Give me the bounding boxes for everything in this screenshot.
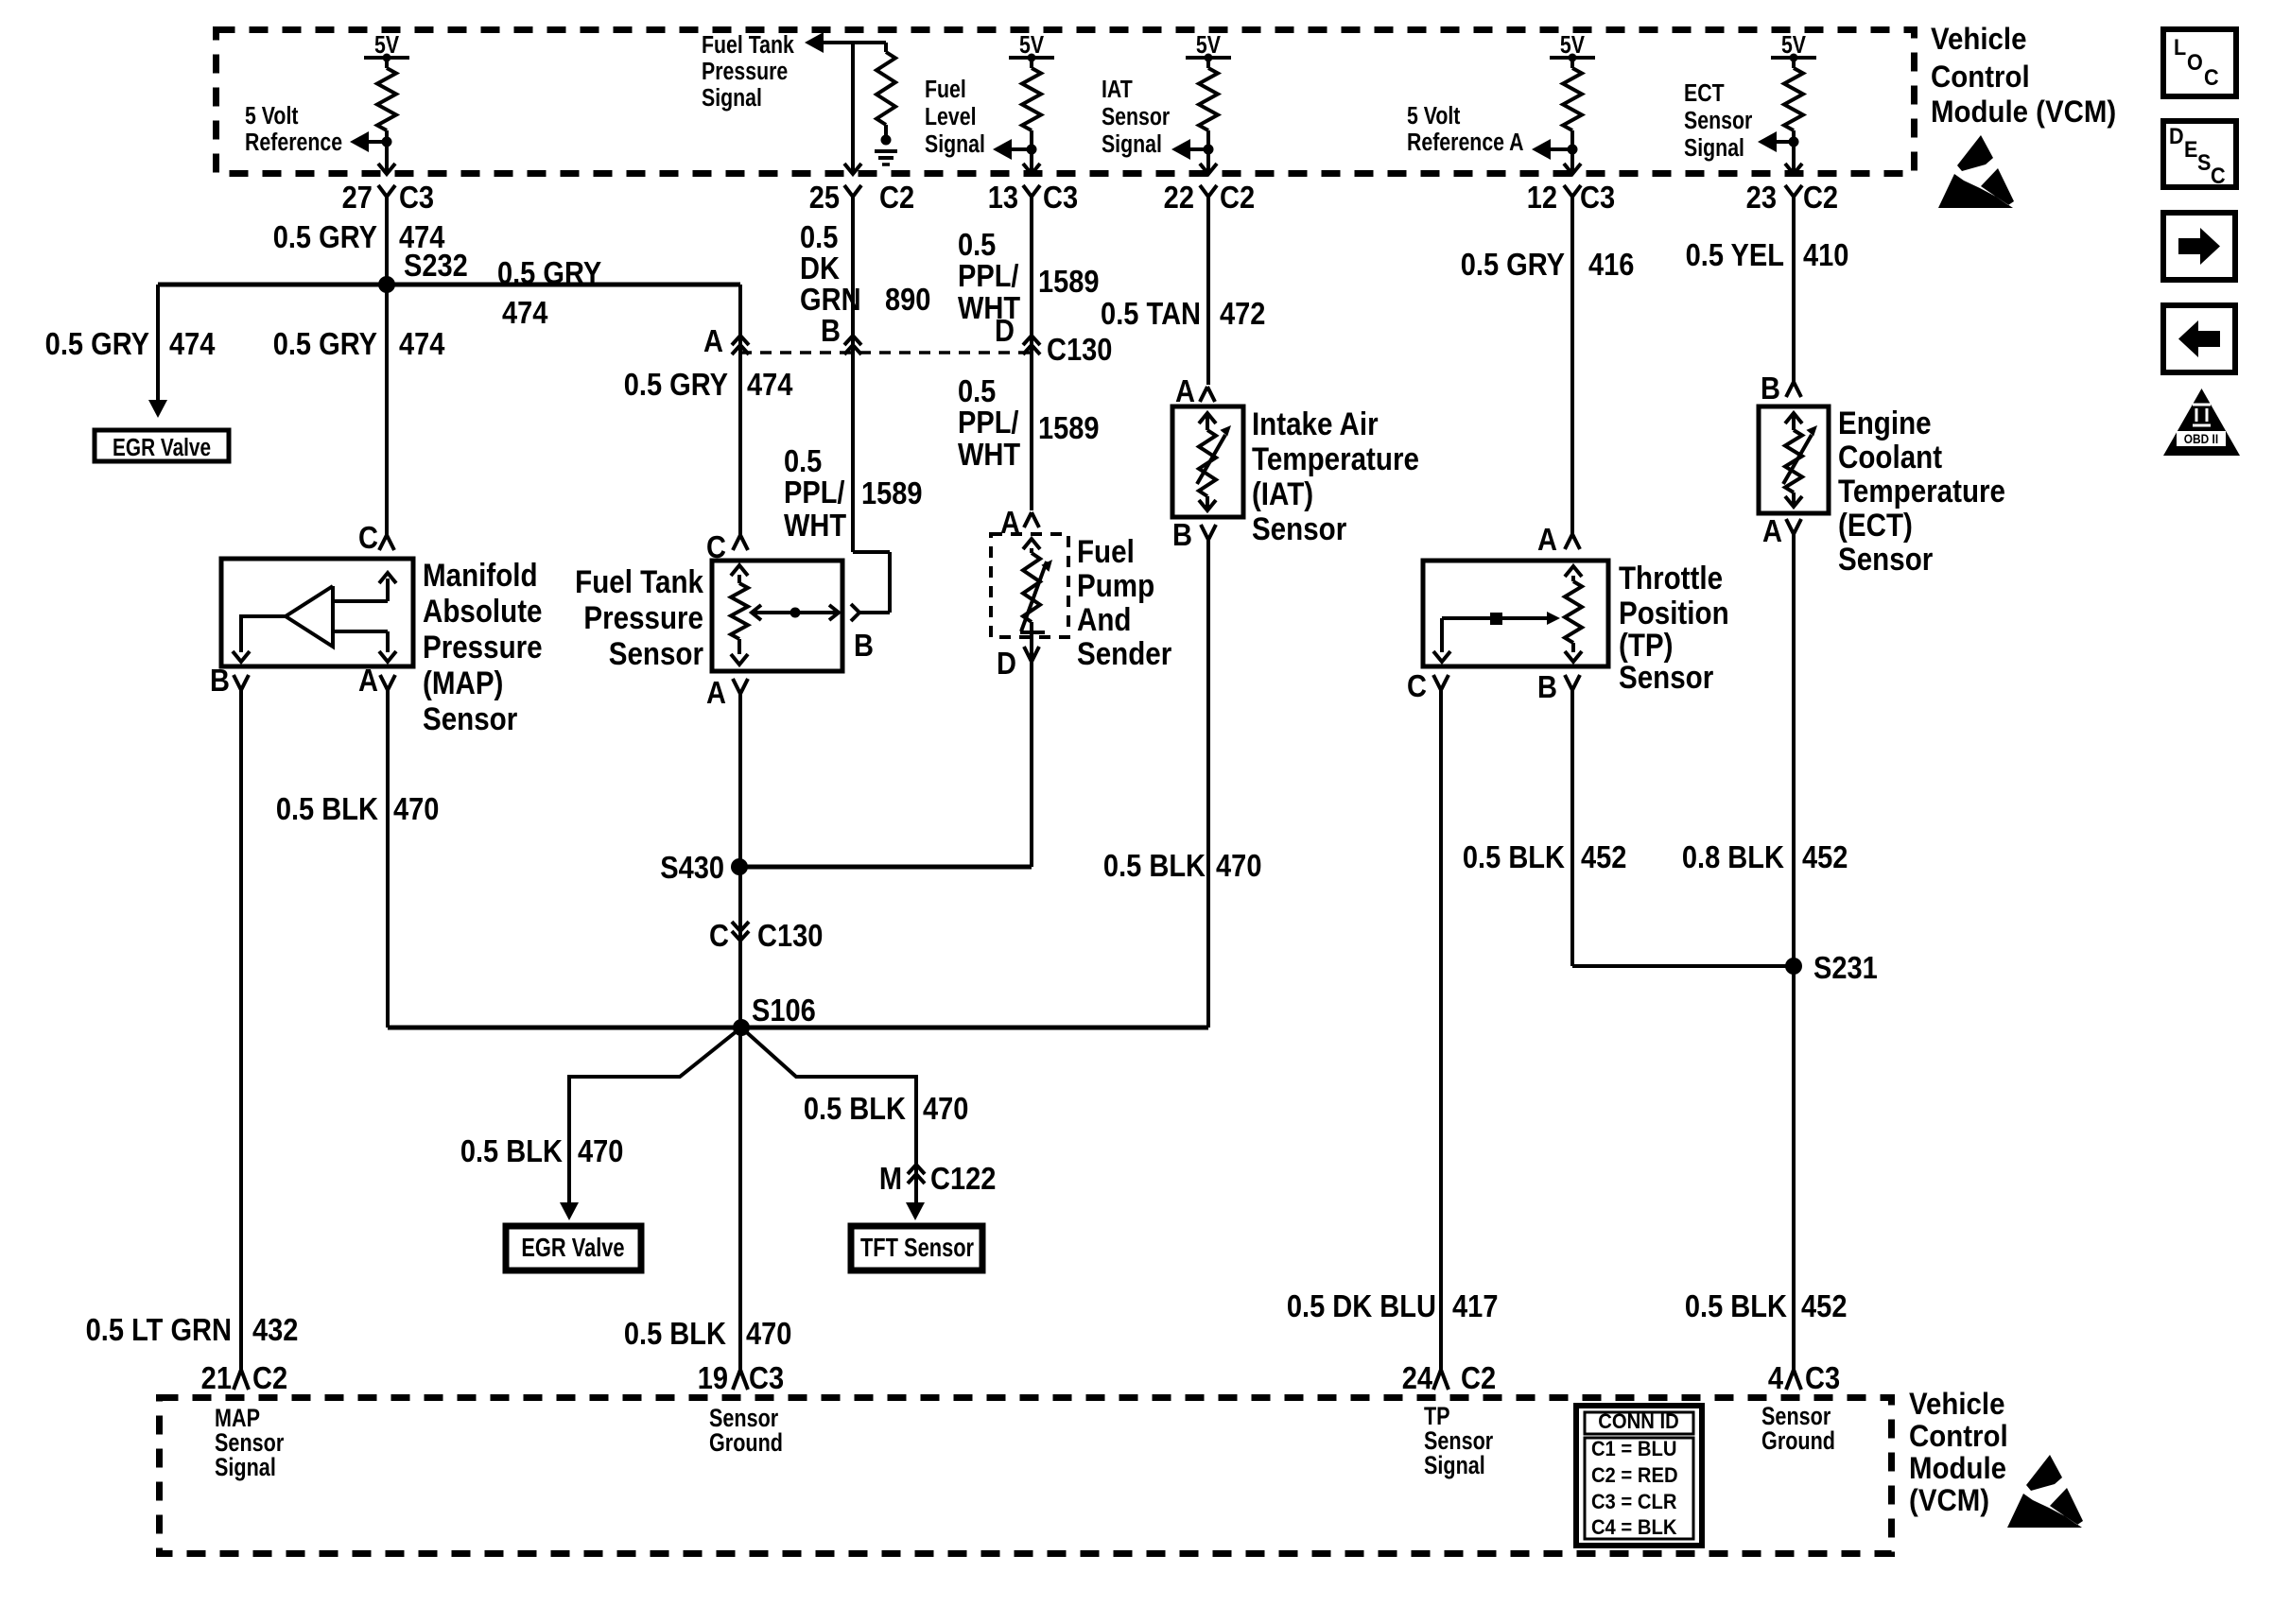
svg-text:452: 452	[1801, 1288, 1847, 1323]
svg-text:C3: C3	[399, 180, 434, 215]
svg-text:C122: C122	[930, 1161, 996, 1196]
svg-text:Fuel: Fuel	[1077, 533, 1135, 569]
svg-text:472: 472	[1220, 296, 1265, 331]
svg-text:0.5 BLK: 0.5 BLK	[624, 1316, 727, 1351]
svg-text:5 Volt: 5 Volt	[245, 102, 299, 130]
svg-text:C1 = BLU: C1 = BLU	[1591, 1438, 1676, 1460]
svg-text:470: 470	[923, 1091, 968, 1126]
svg-text:0.5 BLK: 0.5 BLK	[804, 1091, 907, 1126]
svg-text:0.5 BLK: 0.5 BLK	[1685, 1288, 1788, 1323]
svg-text:474: 474	[502, 295, 548, 330]
svg-text:Pressure: Pressure	[583, 599, 703, 635]
svg-text:Module: Module	[1909, 1451, 2006, 1485]
svg-text:C2 = RED: C2 = RED	[1591, 1464, 1678, 1487]
svg-text:470: 470	[578, 1133, 623, 1168]
svg-text:C4 = BLK: C4 = BLK	[1591, 1516, 1677, 1539]
svg-text:Coolant: Coolant	[1838, 439, 1942, 475]
svg-text:Signal: Signal	[215, 1454, 276, 1482]
svg-text:470: 470	[393, 791, 439, 826]
svg-text:PPL/: PPL/	[784, 475, 845, 510]
svg-text:O: O	[2187, 49, 2203, 75]
svg-text:Sender: Sender	[1077, 635, 1171, 671]
svg-text:Throttle: Throttle	[1619, 560, 1723, 596]
svg-text:1589: 1589	[1038, 410, 1100, 445]
svg-text:5 Volt: 5 Volt	[1407, 102, 1461, 130]
svg-text:(VCM): (VCM)	[1909, 1483, 1989, 1517]
svg-text:A: A	[358, 663, 378, 698]
svg-text:Fuel Tank: Fuel Tank	[575, 563, 703, 599]
svg-text:C: C	[2204, 64, 2219, 90]
svg-text:Fuel Tank: Fuel Tank	[702, 31, 795, 60]
svg-text:470: 470	[1216, 848, 1261, 883]
svg-text:474: 474	[399, 326, 445, 361]
svg-text:Sensor: Sensor	[1619, 659, 1713, 695]
svg-text:C2: C2	[1803, 180, 1838, 215]
svg-text:PPL/: PPL/	[958, 405, 1019, 440]
svg-text:0.5 GRY: 0.5 GRY	[1461, 247, 1566, 282]
svg-text:A: A	[1537, 522, 1557, 557]
svg-text:Sensor: Sensor	[1838, 541, 1933, 577]
svg-text:13: 13	[988, 180, 1018, 215]
svg-text:24: 24	[1402, 1360, 1433, 1395]
svg-text:B: B	[821, 313, 841, 348]
svg-text:C130: C130	[1047, 332, 1112, 367]
svg-text:0.5 BLK: 0.5 BLK	[276, 791, 379, 826]
svg-text:Signal: Signal	[925, 130, 985, 159]
svg-text:Vehicle: Vehicle	[1931, 22, 2026, 56]
svg-text:DK: DK	[800, 251, 840, 285]
svg-text:890: 890	[885, 282, 930, 317]
svg-text:C2: C2	[879, 180, 914, 215]
svg-text:S232: S232	[404, 248, 468, 283]
svg-text:0.5 GRY: 0.5 GRY	[273, 219, 378, 254]
svg-text:OBD II: OBD II	[2184, 431, 2218, 446]
svg-text:D: D	[997, 646, 1016, 681]
svg-text:474: 474	[169, 326, 216, 361]
svg-text:Signal: Signal	[1102, 130, 1162, 159]
svg-text:Sensor: Sensor	[609, 635, 703, 671]
svg-text:Temperature: Temperature	[1252, 441, 1419, 476]
svg-text:WHT: WHT	[784, 508, 846, 543]
svg-text:Vehicle: Vehicle	[1909, 1387, 2004, 1421]
svg-text:1589: 1589	[861, 475, 923, 510]
svg-text:0.5 YEL: 0.5 YEL	[1686, 237, 1784, 272]
svg-text:Sensor: Sensor	[1102, 103, 1170, 131]
svg-text:B: B	[1172, 517, 1192, 552]
svg-text:0.5 GRY: 0.5 GRY	[273, 326, 378, 361]
svg-text:Pressure: Pressure	[702, 58, 788, 86]
svg-text:Absolute: Absolute	[423, 593, 543, 629]
svg-text:B: B	[854, 628, 874, 663]
svg-text:(IAT): (IAT)	[1252, 475, 1313, 511]
svg-text:Signal: Signal	[1424, 1452, 1485, 1480]
svg-text:E: E	[2184, 136, 2197, 162]
svg-text:0.5 TAN: 0.5 TAN	[1101, 296, 1201, 331]
svg-text:0.5 BLK: 0.5 BLK	[1103, 848, 1206, 883]
svg-text:C: C	[706, 529, 726, 564]
svg-text:A: A	[1762, 513, 1782, 548]
svg-text:Sensor: Sensor	[423, 700, 517, 736]
svg-text:0.5 BLK: 0.5 BLK	[1463, 839, 1566, 874]
svg-text:474: 474	[747, 367, 793, 402]
svg-text:A: A	[706, 675, 726, 710]
svg-text:C3 = CLR: C3 = CLR	[1591, 1491, 1676, 1513]
svg-text:IAT: IAT	[1102, 76, 1133, 104]
svg-text:432: 432	[252, 1312, 298, 1347]
svg-text:Pump: Pump	[1077, 567, 1154, 603]
svg-text:Intake Air: Intake Air	[1252, 406, 1379, 441]
svg-text:0.5 DK BLU: 0.5 DK BLU	[1287, 1288, 1436, 1323]
svg-text:S: S	[2197, 149, 2211, 175]
svg-text:Temperature: Temperature	[1838, 473, 2005, 509]
svg-text:27: 27	[342, 180, 373, 215]
svg-text:Control: Control	[1909, 1419, 2008, 1453]
svg-text:Reference: Reference	[245, 129, 342, 157]
svg-text:B: B	[1761, 371, 1780, 406]
svg-text:12: 12	[1527, 180, 1557, 215]
svg-text:ECT: ECT	[1684, 79, 1725, 108]
svg-text:A: A	[703, 323, 723, 358]
svg-text:Position: Position	[1619, 595, 1729, 631]
svg-text:Manifold: Manifold	[423, 557, 538, 593]
svg-text:S231: S231	[1813, 950, 1878, 985]
svg-text:M: M	[879, 1161, 902, 1196]
svg-text:D: D	[2169, 123, 2184, 148]
svg-text:C3: C3	[1580, 180, 1615, 215]
svg-text:Signal: Signal	[1684, 134, 1744, 163]
svg-text:L: L	[2174, 34, 2186, 60]
svg-text:0.5: 0.5	[958, 373, 996, 408]
svg-text:Fuel: Fuel	[925, 76, 966, 104]
svg-text:470: 470	[746, 1316, 791, 1351]
svg-text:C2: C2	[1461, 1360, 1496, 1395]
svg-text:23: 23	[1746, 180, 1777, 215]
svg-text:(TP): (TP)	[1619, 627, 1673, 663]
svg-text:A: A	[1175, 373, 1195, 408]
svg-text:WHT: WHT	[958, 290, 1020, 325]
svg-text:452: 452	[1581, 839, 1626, 874]
svg-text:0.5: 0.5	[800, 219, 838, 254]
svg-text:C: C	[709, 918, 729, 953]
svg-text:0.5 LT GRN: 0.5 LT GRN	[86, 1312, 232, 1347]
svg-text:0.5: 0.5	[784, 443, 822, 478]
svg-text:1589: 1589	[1038, 264, 1100, 299]
svg-text:Ground: Ground	[1761, 1427, 1835, 1456]
svg-text:TFT Sensor: TFT Sensor	[860, 1233, 974, 1262]
svg-text:410: 410	[1803, 237, 1848, 272]
svg-text:22: 22	[1164, 180, 1194, 215]
svg-text:C130: C130	[757, 918, 823, 953]
svg-text:A: A	[1000, 505, 1020, 540]
svg-text:C3: C3	[749, 1360, 784, 1395]
svg-text:0.8 BLK: 0.8 BLK	[1682, 839, 1785, 874]
svg-text:Control: Control	[1931, 60, 2030, 94]
svg-text:21: 21	[201, 1360, 232, 1395]
svg-text:S430: S430	[660, 850, 724, 885]
svg-text:0.5 GRY: 0.5 GRY	[497, 255, 602, 290]
svg-text:Pressure: Pressure	[423, 629, 543, 665]
svg-text:0.5 GRY: 0.5 GRY	[624, 367, 729, 402]
svg-text:GRN: GRN	[800, 282, 861, 317]
svg-text:C3: C3	[1043, 180, 1078, 215]
svg-text:(MAP): (MAP)	[423, 665, 503, 700]
svg-text:CONN ID: CONN ID	[1598, 1410, 1678, 1433]
svg-text:Module (VCM): Module (VCM)	[1931, 95, 2116, 129]
svg-text:EGR Valve: EGR Valve	[113, 434, 211, 461]
svg-text:19: 19	[698, 1360, 728, 1395]
svg-text:417: 417	[1452, 1288, 1498, 1323]
svg-text:C2: C2	[252, 1360, 287, 1395]
svg-text:Engine: Engine	[1838, 405, 1932, 441]
svg-text:Ground: Ground	[709, 1429, 783, 1458]
svg-text:Level: Level	[925, 103, 977, 131]
svg-text:And: And	[1077, 601, 1131, 637]
svg-text:S106: S106	[752, 993, 816, 1028]
svg-text:PPL/: PPL/	[958, 258, 1019, 293]
svg-text:EGR Valve: EGR Valve	[521, 1233, 624, 1262]
svg-text:Reference A: Reference A	[1407, 129, 1524, 157]
svg-text:B: B	[1537, 669, 1557, 704]
svg-text:WHT: WHT	[958, 437, 1020, 472]
svg-text:C: C	[1407, 668, 1427, 703]
svg-text:0.5: 0.5	[958, 227, 996, 262]
svg-text:C: C	[358, 520, 378, 555]
svg-text:C2: C2	[1220, 180, 1255, 215]
svg-text:25: 25	[809, 180, 840, 215]
svg-text:Signal: Signal	[702, 84, 762, 112]
svg-text:Sensor: Sensor	[1684, 107, 1752, 135]
svg-text:0.5 BLK: 0.5 BLK	[460, 1133, 564, 1168]
svg-text:B: B	[210, 663, 230, 698]
svg-text:0.5 GRY: 0.5 GRY	[45, 326, 150, 361]
svg-text:452: 452	[1802, 839, 1848, 874]
svg-text:4: 4	[1768, 1360, 1784, 1395]
svg-text:C: C	[2211, 163, 2226, 188]
svg-text:C3: C3	[1805, 1360, 1840, 1395]
svg-text:416: 416	[1588, 247, 1634, 282]
svg-text:Sensor: Sensor	[1252, 510, 1346, 546]
svg-text:(ECT): (ECT)	[1838, 507, 1913, 543]
